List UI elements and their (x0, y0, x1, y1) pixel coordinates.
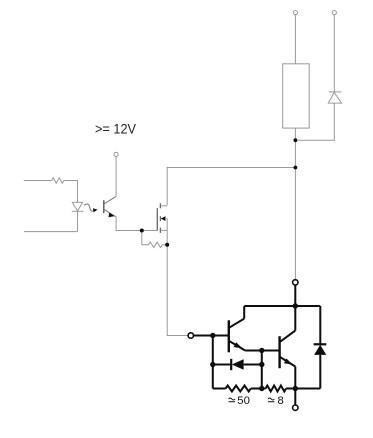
wire (116, 216, 142, 230)
transistor Q3 (280, 331, 296, 369)
terminal P2 (332, 11, 336, 15)
diode D3 freewheel (314, 306, 327, 389)
opto input top wire (24, 180, 52, 182)
node drain feed (294, 166, 298, 170)
light arrow (84, 204, 98, 212)
wire (294, 15, 296, 64)
wire emitter Q2 to base Q3 (245, 350, 280, 352)
wire (295, 103, 334, 140)
phototransistor Q1 (104, 196, 116, 217)
wire (294, 367, 296, 389)
wire (167, 168, 295, 206)
label R3 value (229, 395, 250, 407)
wire (251, 388, 266, 390)
node (259, 348, 264, 353)
wire left vertical (212, 336, 214, 389)
svg-text:>= 12V: >= 12V (95, 122, 136, 137)
wire (115, 157, 117, 197)
wire (167, 219, 188, 336)
opto LED D1 (72, 202, 84, 211)
wire (286, 388, 320, 390)
node (293, 386, 298, 391)
terminal P1 (293, 11, 297, 15)
wire mid vertical (261, 351, 263, 389)
load resistor RL (box) (283, 64, 310, 128)
resistor R3 (226, 386, 251, 392)
opto input bottom wire (24, 231, 78, 233)
resistor R2 (142, 231, 167, 248)
pin collector (293, 280, 298, 285)
transistor Q2 (229, 319, 245, 353)
wire (77, 211, 79, 231)
wire (333, 15, 335, 92)
wire (142, 230, 158, 232)
node (293, 303, 298, 308)
node gate (140, 229, 144, 233)
wire (213, 388, 226, 390)
node under load (294, 138, 298, 142)
svg-text:8: 8 (278, 395, 284, 407)
label R4 value (268, 395, 284, 407)
MOSFET M1 (157, 203, 167, 233)
wire (294, 285, 296, 306)
resistor R4 (266, 386, 286, 392)
wire (194, 335, 229, 337)
wire (294, 389, 296, 405)
resistor R1 (52, 178, 64, 183)
node source (165, 243, 169, 247)
diode D2 speed-up (213, 359, 262, 370)
wire (64, 181, 78, 203)
pin emitter (293, 405, 298, 410)
wire (294, 306, 296, 331)
terminal P3 (114, 152, 118, 156)
clamp diode D5 (328, 92, 341, 103)
svg-text:50: 50 (237, 395, 250, 407)
node (259, 362, 264, 367)
top bus wire (244, 305, 320, 307)
pin base (188, 333, 193, 338)
node (259, 386, 264, 391)
node (210, 333, 215, 338)
node (210, 362, 215, 367)
wire (243, 306, 245, 319)
wire (294, 128, 296, 280)
